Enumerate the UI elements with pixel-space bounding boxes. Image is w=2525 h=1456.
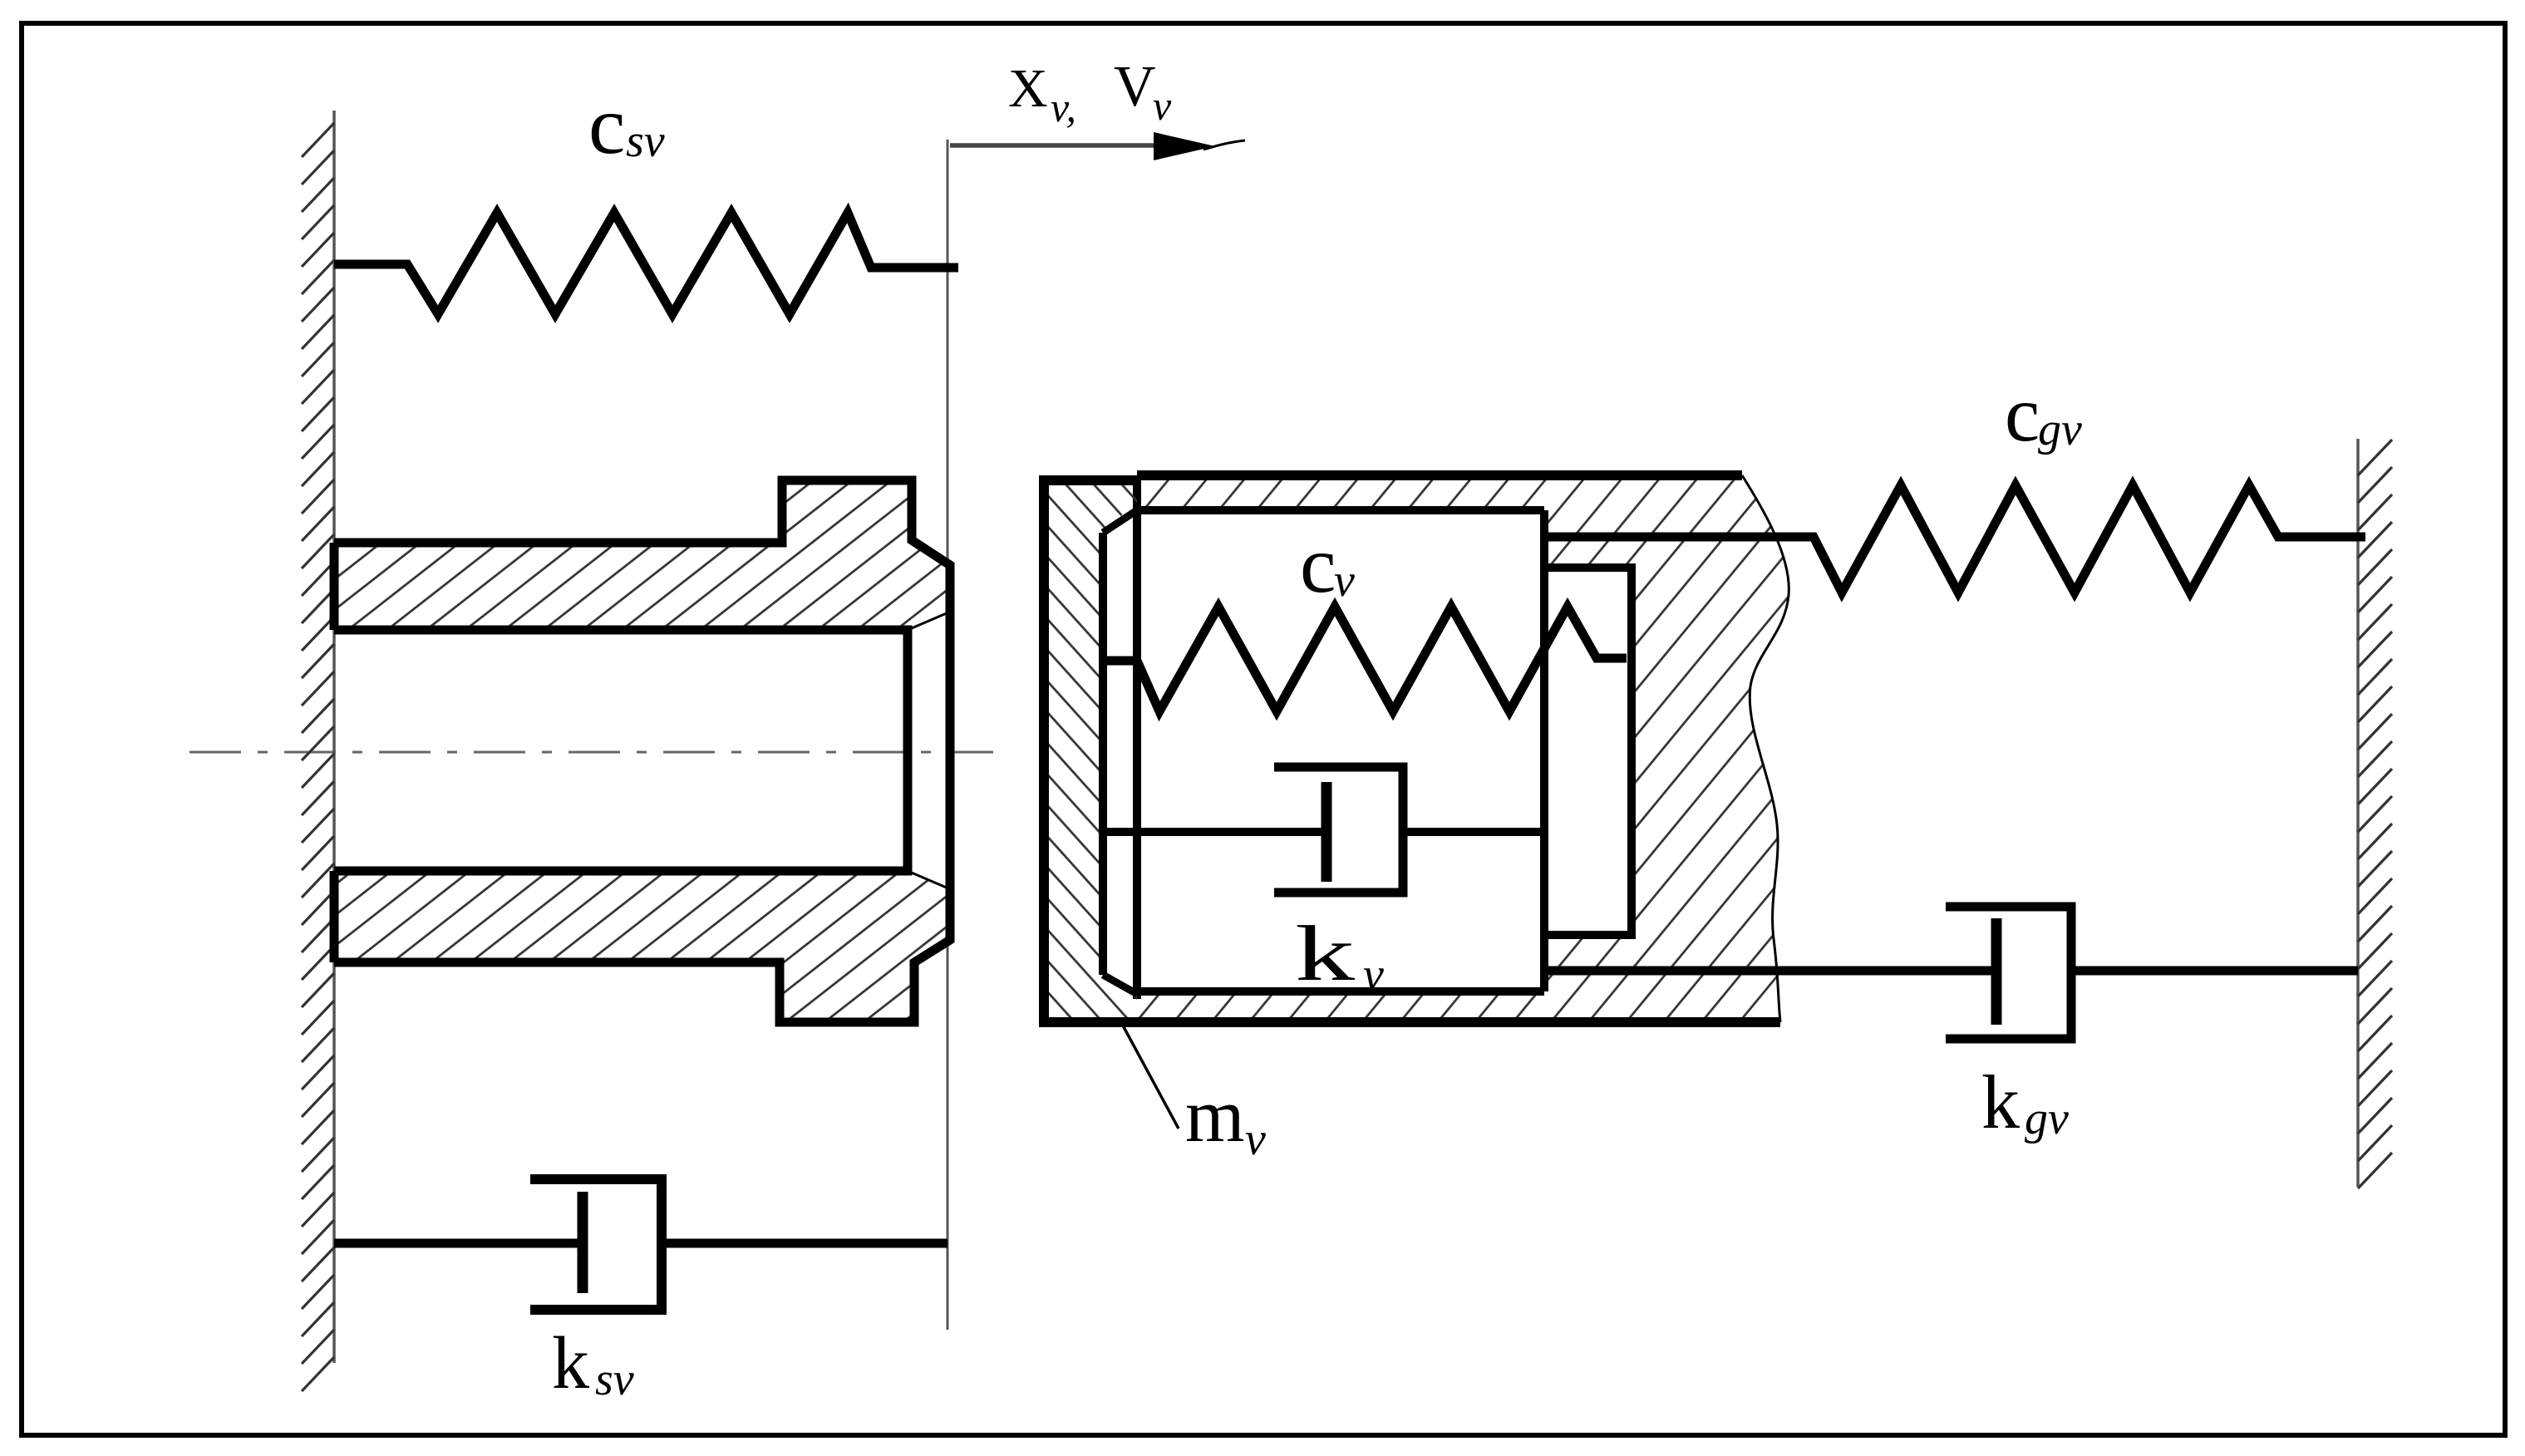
svg-text:gv: gv: [2038, 404, 2082, 455]
svg-text:k: k: [1981, 1060, 2020, 1144]
svg-text:sv: sv: [595, 1354, 634, 1405]
svg-text:gv: gv: [2025, 1093, 2069, 1144]
svg-text:v: v: [1245, 1114, 1266, 1165]
svg-text:v: v: [1334, 555, 1355, 607]
svg-text:v: v: [1363, 949, 1384, 1001]
svg-text:X: X: [1008, 58, 1048, 119]
svg-text:c: c: [2005, 370, 2040, 458]
svg-text:v,: v,: [1051, 84, 1076, 130]
svg-text:sv: sv: [626, 116, 665, 167]
svg-text:k: k: [1295, 909, 1356, 997]
svg-text:c: c: [1300, 520, 1336, 610]
svg-text:V: V: [1114, 55, 1156, 119]
svg-text:v: v: [1153, 82, 1172, 129]
svg-text:c: c: [588, 79, 625, 171]
svg-text:m: m: [1185, 1073, 1245, 1158]
svg-text:k: k: [552, 1322, 589, 1404]
